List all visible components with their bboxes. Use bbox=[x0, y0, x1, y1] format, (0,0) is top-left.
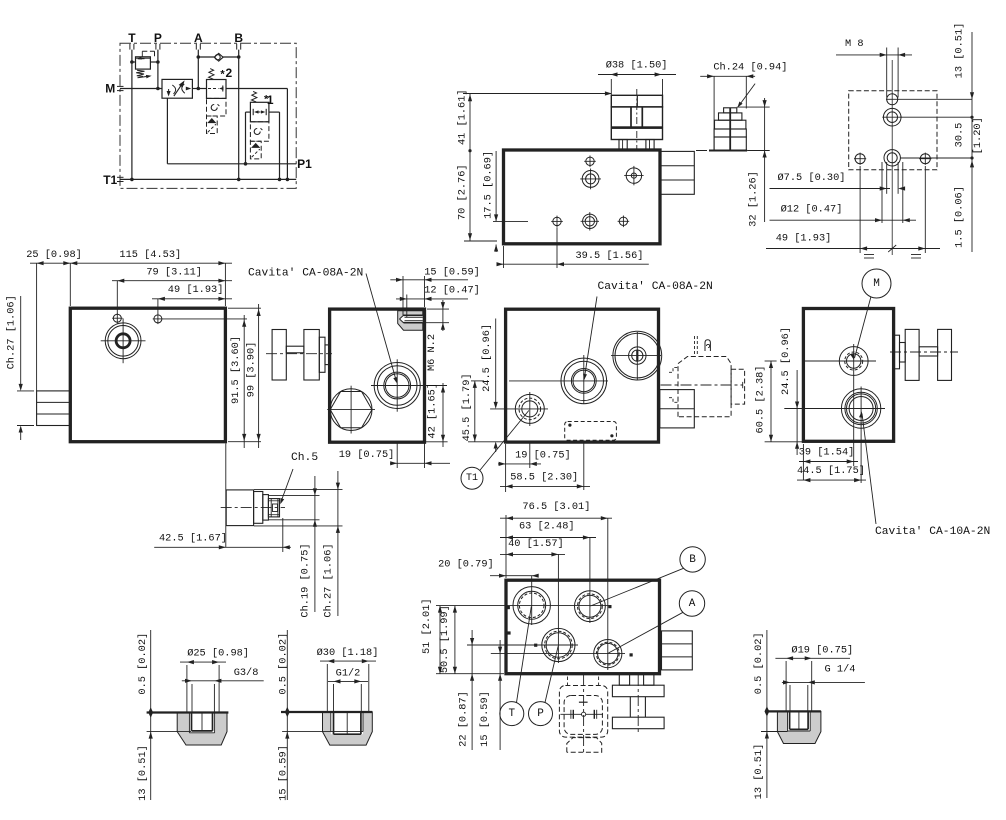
relief valve V1 internal detail bbox=[136, 57, 151, 59]
svg-text:32 [1.26]: 32 [1.26] bbox=[748, 171, 760, 227]
view D hole D2 bbox=[154, 315, 162, 323]
svg-text:Cavita' CA-08A-2N: Cavita' CA-08A-2N bbox=[598, 281, 713, 293]
view F big circle top-right bbox=[613, 331, 662, 380]
junction dot V4-P1 bbox=[244, 162, 248, 166]
view H centerline bbox=[221, 507, 285, 509]
svg-text:19 [0.75]: 19 [0.75] bbox=[339, 449, 395, 461]
svg-text:15 [0.59]: 15 [0.59] bbox=[479, 691, 491, 747]
svg-text:19 [0.75]: 19 [0.75] bbox=[515, 450, 571, 462]
view F cavity circle CA-08A-2N bbox=[561, 358, 607, 404]
view F block outline bbox=[506, 309, 659, 442]
svg-text:49 [1.93]: 49 [1.93] bbox=[168, 284, 224, 296]
balloon A bbox=[679, 591, 704, 616]
svg-text:Ch.27 [1.06]: Ch.27 [1.06] bbox=[323, 543, 335, 617]
svg-text:12 [0.47]: 12 [0.47] bbox=[424, 284, 480, 296]
junction dot A-check bbox=[197, 55, 201, 59]
svg-text:Ø12 [0.47]: Ø12 [0.47] bbox=[781, 204, 843, 216]
svg-text:M: M bbox=[105, 82, 115, 96]
Ch.24 cartridge base line bbox=[709, 150, 747, 152]
view E cavity circle CA-08A-2N bbox=[374, 363, 420, 409]
Ch.24 dash-dot stub left bbox=[697, 150, 706, 152]
port detail G1/4 surface line bbox=[766, 710, 821, 712]
port P symbol ticks bbox=[155, 44, 157, 50]
counterbalance valve V4 (*1) body bbox=[250, 102, 269, 122]
view C hole M8 bbox=[887, 94, 898, 105]
junction dot relief-P bbox=[156, 60, 160, 64]
view B hole H1 bbox=[586, 157, 594, 165]
view B knob (relief adjust) body bbox=[611, 95, 662, 107]
view E corner cut gray bbox=[398, 311, 423, 330]
view E knob centerline bbox=[266, 353, 332, 355]
svg-text:41 [1.61]: 41 [1.61] bbox=[456, 89, 468, 145]
svg-text:60.5 [2.38]: 60.5 [2.38] bbox=[755, 366, 767, 434]
balloon M bbox=[862, 269, 891, 298]
view C row connector lines bbox=[898, 98, 972, 100]
view C hole bottom-center bbox=[884, 150, 900, 166]
svg-text:79 [3.11]: 79 [3.11] bbox=[146, 267, 202, 279]
flow control valve V2 outlet arrow bbox=[186, 87, 192, 91]
wire B line bbox=[238, 50, 240, 180]
svg-text:13 [0.51]: 13 [0.51] bbox=[137, 745, 149, 801]
svg-text:Ch.24 [0.94]: Ch.24 [0.94] bbox=[713, 62, 787, 74]
view I datum squares bbox=[507, 606, 510, 609]
svg-text:M6 N.2: M6 N.2 bbox=[426, 334, 438, 371]
view F phantom left dashes bbox=[669, 368, 677, 373]
junction dot relief-T bbox=[130, 60, 134, 64]
svg-text:G 1/4: G 1/4 bbox=[825, 664, 856, 676]
relief valve V1 spring bbox=[136, 70, 144, 76]
port detail G1/4 bore bbox=[788, 711, 811, 731]
view H hex section bbox=[254, 492, 263, 524]
wire check valve line A-B bbox=[198, 56, 238, 58]
svg-text:Cavita' CA-10A-2N: Cavita' CA-10A-2N bbox=[875, 526, 990, 538]
view C hole right bbox=[920, 154, 930, 164]
view I phantom center symbol bbox=[560, 713, 603, 715]
junction dot T-T1 bbox=[130, 178, 134, 182]
valve V3 internal dashed path bbox=[208, 88, 219, 90]
view B hole H3 bbox=[626, 168, 641, 183]
svg-text:Ø25 [0.98]: Ø25 [0.98] bbox=[187, 647, 249, 659]
svg-text:30.5: 30.5 bbox=[954, 123, 966, 148]
svg-text:17.5 [0.69]: 17.5 [0.69] bbox=[482, 151, 494, 219]
view F phantom manual pin bbox=[694, 336, 696, 354]
check valve CV1 bbox=[214, 53, 223, 61]
svg-text:40 [1.57]: 40 [1.57] bbox=[508, 538, 564, 550]
view I knob below (solid) bbox=[619, 674, 629, 686]
port detail G3/8 surface line bbox=[147, 711, 229, 713]
junction dot B-check bbox=[237, 55, 241, 59]
wire V4 right port bbox=[269, 111, 280, 113]
view I port A circle bbox=[594, 640, 622, 668]
view F phantom centerline bbox=[661, 384, 743, 386]
Ch.24 leader arrow bbox=[739, 84, 756, 107]
view H threaded tip bbox=[268, 499, 279, 517]
svg-text:13 [0.51]: 13 [0.51] bbox=[954, 23, 966, 79]
flow control valve V2 arrow bbox=[174, 82, 183, 96]
balloon T bbox=[500, 702, 524, 726]
Ch.24 cartridge body bbox=[714, 137, 746, 151]
wire P1 line bbox=[166, 98, 168, 164]
svg-text:70 [2.76]: 70 [2.76] bbox=[456, 164, 468, 220]
valve V3 drain section dashed bbox=[207, 116, 218, 134]
svg-text:39 [1.54]: 39 [1.54] bbox=[799, 447, 855, 459]
valve V3 spring bbox=[209, 69, 214, 80]
port detail G1/2 surface line bbox=[281, 711, 372, 713]
view I block outline bbox=[506, 580, 660, 674]
svg-text:51 [2.01]: 51 [2.01] bbox=[421, 598, 433, 654]
flow control valve V2 body bbox=[162, 79, 192, 98]
view G M port circle bbox=[839, 347, 868, 376]
view C equal marks bbox=[864, 254, 874, 256]
svg-text:13 [0.51]: 13 [0.51] bbox=[753, 744, 765, 800]
svg-text:15 [0.59]: 15 [0.59] bbox=[424, 267, 480, 279]
wire T line bbox=[131, 50, 133, 180]
svg-text:Ch.27 [1.06]: Ch.27 [1.06] bbox=[6, 295, 18, 369]
svg-text:1: 1 bbox=[267, 93, 274, 107]
svg-text:44.5 [1.75]: 44.5 [1.75] bbox=[797, 465, 865, 477]
junction dot Mbranch-T1 bbox=[286, 178, 290, 182]
svg-text:20 [0.79]: 20 [0.79] bbox=[438, 559, 494, 571]
svg-text:G1/2: G1/2 bbox=[336, 668, 361, 680]
view B knob tabs bbox=[619, 140, 627, 150]
view I left-edge extension line bbox=[505, 515, 507, 578]
svg-text:P: P bbox=[537, 708, 544, 720]
view F T1 port circle bbox=[515, 394, 544, 423]
valve V4 drain section dashed bbox=[250, 141, 261, 159]
valve V4 spring bbox=[252, 91, 257, 102]
svg-text:24.5 [0.96]: 24.5 [0.96] bbox=[780, 327, 792, 395]
svg-text:Cavita' CA-08A-2N: Cavita' CA-08A-2N bbox=[248, 268, 363, 280]
view C hole middle bbox=[883, 108, 901, 126]
svg-text:A: A bbox=[194, 31, 203, 45]
view D extension to Ch.5 detail bbox=[225, 444, 227, 548]
wire P line bbox=[157, 50, 159, 89]
svg-text:Ø30 [1.18]: Ø30 [1.18] bbox=[317, 647, 379, 659]
svg-text:24.5 [0.96]: 24.5 [0.96] bbox=[481, 324, 493, 392]
view B hole H2 bbox=[582, 171, 599, 188]
svg-text:T: T bbox=[508, 708, 515, 720]
port detail G3/8 gray body bbox=[177, 713, 227, 746]
wire M line bbox=[120, 88, 162, 90]
svg-text:1.5 [0.06]: 1.5 [0.06] bbox=[954, 186, 966, 248]
view I T/B row centerline bbox=[436, 605, 610, 607]
svg-text:0.5 [0.02]: 0.5 [0.02] bbox=[753, 632, 765, 694]
svg-text:22 [0.87]: 22 [0.87] bbox=[457, 691, 469, 747]
svg-text:63 [2.48]: 63 [2.48] bbox=[519, 520, 575, 532]
svg-text:[1.20]: [1.20] bbox=[972, 117, 984, 154]
view D hex fitting left bbox=[37, 391, 71, 426]
view C M8 drill extension lines bbox=[886, 48, 888, 98]
view E hex plug circle bbox=[330, 389, 372, 431]
svg-text:50.5 [1.99]: 50.5 [1.99] bbox=[439, 605, 451, 673]
hydraulic schematic frame (dash-dot border) bbox=[120, 43, 296, 188]
view I phantom DIN connector dashed bbox=[559, 686, 607, 738]
svg-text:Ø19 [0.75]: Ø19 [0.75] bbox=[791, 645, 853, 657]
balloon P bbox=[529, 702, 553, 726]
view I column centerlines bbox=[531, 576, 533, 625]
view D main circle (relief cavity) bbox=[105, 323, 141, 359]
svg-text:P: P bbox=[154, 31, 162, 45]
view D hole row line bbox=[163, 318, 247, 320]
svg-text:Ø38 [1.50]: Ø38 [1.50] bbox=[606, 60, 668, 72]
view F nameplate dashed rect bbox=[565, 422, 617, 441]
Ch.24 cartridge stem centerline bbox=[729, 108, 731, 151]
view E block outline bbox=[330, 309, 425, 442]
svg-text:15 [0.59]: 15 [0.59] bbox=[278, 745, 290, 801]
svg-text:115 [4.53]: 115 [4.53] bbox=[119, 249, 181, 261]
view C centerline vertical bbox=[891, 60, 893, 255]
port detail G1/4 gray body bbox=[777, 711, 821, 743]
wire V4 left port bbox=[246, 111, 251, 113]
svg-text:42.5 [1.67]: 42.5 [1.67] bbox=[159, 533, 227, 545]
junction dot B-T1 bbox=[237, 178, 241, 182]
view B knob centerline bbox=[636, 89, 638, 150]
port T symbol ticks bbox=[129, 44, 131, 50]
view C hole left bbox=[855, 154, 865, 164]
view E knob (handwheel) bbox=[272, 330, 286, 381]
relief valve V1 adjust arrow bbox=[138, 76, 151, 78]
svg-text:T1: T1 bbox=[466, 473, 478, 484]
view G cavity circle CA-10A-2N bbox=[841, 389, 880, 428]
svg-text:45.5 [1.79]: 45.5 [1.79] bbox=[461, 373, 473, 441]
svg-text:0.5 [0.02]: 0.5 [0.02] bbox=[137, 633, 149, 695]
svg-text:2: 2 bbox=[225, 66, 232, 80]
svg-text:A: A bbox=[689, 598, 696, 610]
svg-text:25 [0.98]: 25 [0.98] bbox=[26, 249, 82, 261]
junction dot P-M bbox=[156, 87, 160, 91]
port detail G1/2 gray body bbox=[323, 712, 373, 745]
view G block outline bbox=[803, 309, 893, 442]
view I phantom top connector dashes bbox=[567, 677, 569, 687]
view I P row centerline bbox=[467, 644, 578, 646]
view C dashed block outline bbox=[849, 91, 937, 170]
valve V3 pilot section dashed bbox=[207, 98, 227, 116]
view I hex fitting right bbox=[662, 631, 693, 670]
view B bottom row reference line bbox=[493, 220, 528, 222]
svg-text:99 [3.90]: 99 [3.90] bbox=[245, 342, 257, 398]
junction dot A-M bbox=[197, 87, 201, 91]
svg-text:42 [1.65]: 42 [1.65] bbox=[426, 383, 438, 439]
svg-text:Ch.19 [0.75]: Ch.19 [0.75] bbox=[300, 543, 312, 617]
view E M6 hole in corner bbox=[404, 315, 423, 322]
view F hex fitting right bbox=[660, 390, 695, 428]
view D hole D1 bbox=[113, 314, 121, 322]
view B hex fitting right bbox=[660, 151, 694, 194]
wire relief outlet bbox=[150, 61, 158, 63]
svg-text:G3/8: G3/8 bbox=[234, 667, 259, 679]
svg-text:T: T bbox=[128, 31, 136, 45]
view I A row centerline bbox=[491, 653, 625, 655]
relief valve V1 pilot dash line bbox=[142, 50, 154, 52]
wire A line bbox=[197, 50, 199, 89]
svg-text:P1: P1 bbox=[297, 157, 312, 171]
balloon B bbox=[680, 547, 705, 572]
view F phantom solenoid symbol bbox=[705, 340, 710, 351]
view G knob (handwheel) bbox=[894, 335, 900, 369]
view I port P circle bbox=[542, 628, 575, 661]
flow control valve V2 restrictor arcs bbox=[172, 85, 175, 94]
view G knob centerline bbox=[890, 351, 958, 353]
port T1 symbol ticks bbox=[117, 176, 124, 178]
wire M line continue to A junction bbox=[192, 88, 206, 90]
view B dash-dot extension right bbox=[696, 150, 745, 152]
view F phantom valve dashed outline bbox=[678, 357, 731, 417]
svg-text:39.5 [1.56]: 39.5 [1.56] bbox=[576, 250, 644, 262]
balloon T1 bbox=[461, 467, 483, 489]
valve V4 pilot section dashed bbox=[250, 122, 269, 142]
relief valve V1 pilot stub bbox=[141, 51, 143, 57]
svg-text:M: M bbox=[873, 278, 880, 290]
svg-text:B: B bbox=[234, 31, 243, 45]
svg-text:91.5 [3.60]: 91.5 [3.60] bbox=[230, 336, 242, 404]
port B symbol ticks bbox=[236, 44, 238, 50]
wire T1 line bbox=[120, 178, 296, 180]
view I port T circle bbox=[513, 587, 550, 624]
relief valve V1 body bbox=[136, 57, 151, 69]
svg-text:M 8: M 8 bbox=[845, 38, 864, 50]
counterbalance valve V3 (*2) body bbox=[207, 80, 227, 99]
valve V4 internal symbols bbox=[252, 109, 254, 115]
svg-text:58.5 [2.30]: 58.5 [2.30] bbox=[510, 471, 578, 483]
view H step section bbox=[263, 495, 269, 520]
wire M branch to T1 bbox=[226, 88, 287, 90]
port detail G1/2 bore bbox=[331, 712, 363, 734]
view B hole H6 bbox=[619, 217, 627, 225]
view B hole H4 bbox=[553, 217, 561, 225]
svg-text:T1: T1 bbox=[103, 173, 117, 187]
flow control valve V2 bypass down arrow bbox=[168, 89, 170, 95]
svg-text:76.5 [3.01]: 76.5 [3.01] bbox=[522, 501, 590, 513]
svg-text:Ch.5: Ch.5 bbox=[291, 452, 318, 464]
view D block outline bbox=[70, 308, 225, 442]
port M symbol ticks bbox=[117, 85, 124, 87]
port A symbol ticks bbox=[195, 44, 197, 50]
view I port B circle bbox=[575, 591, 606, 622]
svg-text:B: B bbox=[689, 554, 696, 566]
wire relief inlet bbox=[132, 61, 136, 63]
junction dot V4-T1 bbox=[278, 178, 282, 182]
view B block outline bbox=[504, 150, 661, 244]
view B hole H5 bbox=[583, 214, 597, 228]
svg-text:49 [1.93]: 49 [1.93] bbox=[776, 233, 832, 245]
svg-text:Ø7.5 [0.30]: Ø7.5 [0.30] bbox=[778, 172, 846, 184]
port detail G3/8 bore bbox=[189, 712, 214, 714]
view H plug body bbox=[226, 490, 253, 526]
